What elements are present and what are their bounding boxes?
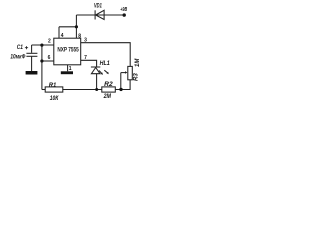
svg-text:7: 7 — [84, 55, 87, 61]
svg-text:NXP 7555: NXP 7555 — [57, 47, 79, 54]
LED HL1 — [91, 67, 109, 75]
resistor R3 variable — [121, 66, 133, 89]
wire LED anode down — [96, 74, 98, 90]
svg-text:+9B: +9B — [120, 7, 127, 13]
label C1 polarity plus — [25, 46, 28, 49]
wire pin 6 — [42, 60, 54, 62]
node pin6 junction — [40, 59, 43, 62]
op-amp U1 timer 7555 box — [54, 38, 81, 65]
terminal +9B — [123, 13, 126, 16]
diode VD1 — [95, 10, 104, 19]
wire pin 7 to LED — [81, 60, 97, 67]
resistor R2 — [102, 87, 116, 92]
wire pin4-pin8 link — [59, 26, 76, 28]
wire pin 8 riser — [75, 27, 77, 38]
svg-text:2: 2 — [48, 39, 51, 45]
svg-text:C1: C1 — [17, 44, 23, 51]
svg-text:3: 3 — [84, 38, 87, 44]
svg-text:R2: R2 — [104, 81, 113, 88]
wire riser top rail to pin8 node — [75, 15, 77, 27]
node pin2 junction — [40, 44, 43, 47]
svg-text:1: 1 — [69, 66, 72, 72]
svg-text:8: 8 — [78, 33, 81, 39]
svg-text:10мкФ: 10мкФ — [10, 53, 26, 60]
wire left vertical branch — [41, 45, 43, 90]
svg-text:10К: 10К — [50, 96, 60, 100]
svg-text:R3: R3 — [132, 73, 139, 81]
wire pin 1 — [67, 65, 69, 72]
ground bar under C1 — [26, 71, 38, 75]
node LED-rail junction — [95, 88, 98, 91]
resistor R1 — [42, 87, 63, 92]
wire pin 2 — [32, 44, 54, 46]
wire pin 4 riser — [58, 27, 60, 38]
wire R2 to R3 bottom — [115, 80, 130, 90]
svg-text:R1: R1 — [49, 82, 57, 89]
wire pin 3 to R3 — [81, 43, 131, 67]
svg-text:4: 4 — [61, 33, 64, 39]
svg-text:VD1: VD1 — [94, 4, 102, 10]
svg-text:2М: 2М — [103, 93, 112, 100]
capacitor C1 — [26, 45, 37, 71]
wire top rail — [76, 14, 124, 16]
wire bottom rail R1 to R2 — [63, 89, 102, 91]
svg-text:6: 6 — [48, 55, 51, 61]
svg-text:HL1: HL1 — [100, 60, 111, 67]
node R2-R3 junction — [119, 88, 122, 91]
node pin8 junction — [75, 25, 78, 28]
svg-text:1М: 1М — [135, 58, 141, 67]
ground bar under pin 1 — [61, 71, 73, 74]
